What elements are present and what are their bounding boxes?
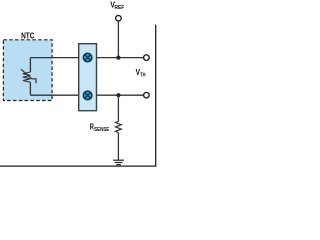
svg-text:TH: TH <box>140 72 146 78</box>
svg-text:SENSE: SENSE <box>94 127 110 133</box>
svg-text:NTC: NTC <box>21 30 34 40</box>
svg-text:REF: REF <box>115 5 125 11</box>
